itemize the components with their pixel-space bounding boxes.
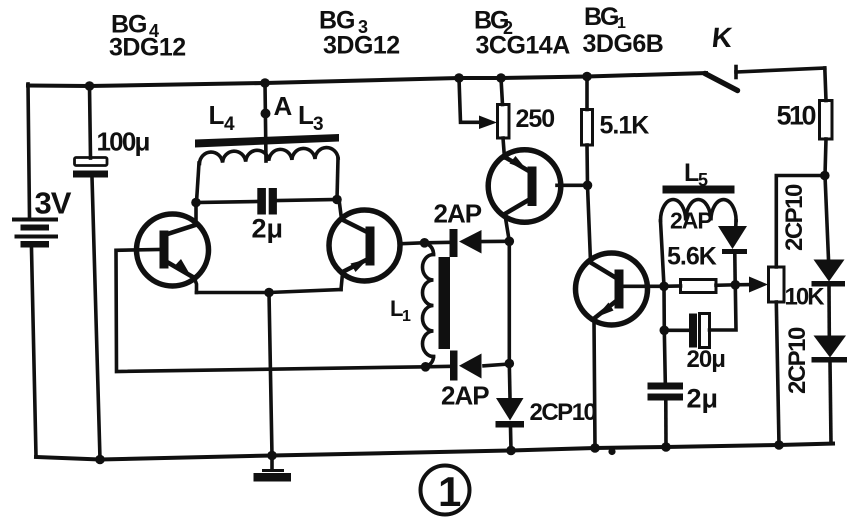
svg-text:K: K (710, 22, 733, 53)
svg-text:2CP10: 2CP10 (530, 399, 597, 426)
svg-text:2μ: 2μ (252, 214, 284, 244)
svg-text:20μ: 20μ (687, 346, 726, 373)
svg-text:250: 250 (516, 105, 555, 133)
svg-text:3DG6B: 3DG6B (583, 30, 664, 58)
svg-text:3: 3 (313, 114, 324, 135)
svg-text:5.6K: 5.6K (667, 243, 717, 271)
svg-text:L: L (298, 100, 314, 130)
svg-text:3DG12: 3DG12 (323, 32, 400, 60)
svg-text:10K: 10K (785, 284, 826, 311)
svg-text:5.1K: 5.1K (600, 112, 650, 140)
svg-text:BG: BG (584, 3, 618, 31)
svg-text:100μ: 100μ (97, 127, 150, 157)
svg-text:5: 5 (698, 170, 708, 190)
svg-text:1: 1 (438, 468, 461, 515)
svg-text:A: A (274, 91, 293, 121)
svg-text:3V: 3V (35, 186, 72, 221)
svg-text:2AP: 2AP (434, 199, 482, 229)
svg-text:BG: BG (319, 7, 355, 35)
svg-text:4: 4 (224, 114, 235, 135)
svg-text:2AP: 2AP (441, 381, 489, 411)
svg-text:3DG12: 3DG12 (109, 34, 186, 62)
svg-text:2CP10: 2CP10 (781, 184, 808, 251)
svg-text:2CP10: 2CP10 (784, 327, 811, 394)
svg-text:2AP: 2AP (670, 208, 712, 234)
svg-text:510: 510 (777, 101, 816, 131)
svg-text:L: L (684, 159, 699, 187)
svg-text:3CG14A: 3CG14A (476, 32, 571, 60)
svg-text:2μ: 2μ (687, 384, 719, 414)
svg-text:1: 1 (402, 308, 411, 325)
svg-text:L: L (209, 100, 225, 130)
